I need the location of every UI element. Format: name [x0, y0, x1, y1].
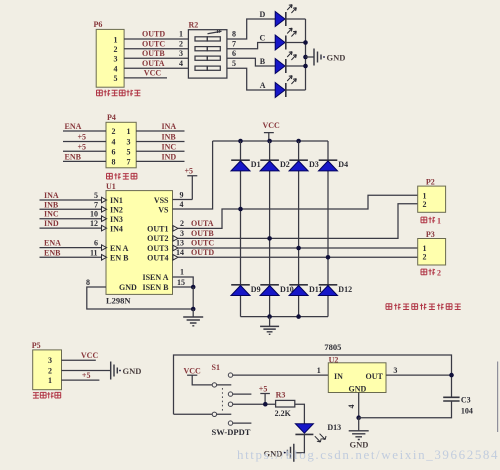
wire OUT1/OUTA to P2.1	[178, 195, 418, 228]
svg-text:D: D	[260, 10, 266, 19]
svg-text:4: 4	[179, 59, 183, 68]
svg-text:7: 7	[94, 200, 98, 209]
wire LED C cathode	[286, 42, 306, 44]
wire R2.8 to LED D	[227, 19, 275, 39]
caption motor 1 (Chinese)	[421, 217, 441, 226]
svg-text:5: 5	[114, 74, 118, 83]
wire R2.6 to LED B	[227, 58, 275, 66]
wire P4.6 +5	[63, 150, 106, 152]
regulator U2 7805 body	[328, 363, 386, 393]
wire bottom rail	[241, 316, 329, 318]
svg-text:3: 3	[127, 138, 131, 147]
junction dot OUTC col3	[296, 246, 301, 251]
svg-text:S1: S1	[212, 363, 220, 372]
svg-text:ENA: ENA	[44, 239, 61, 248]
svg-text:OUT: OUT	[366, 372, 384, 381]
U2 pin names	[334, 372, 384, 393]
switch S1 linkage dashed	[221, 388, 223, 412]
svg-text:D1: D1	[251, 160, 261, 169]
caption motor 2 (Chinese)	[421, 269, 441, 278]
wire P5.1 +5	[62, 379, 100, 381]
junction dot rail col2	[267, 139, 272, 144]
svg-text:1: 1	[127, 127, 131, 136]
junction dot +5	[263, 402, 268, 407]
wire P6.2 to R2.2	[124, 48, 188, 50]
svg-text:6: 6	[232, 49, 236, 58]
power symbol VCC at switch	[184, 366, 202, 375]
junction dot OUTA col1	[238, 207, 243, 212]
svg-text:OUT3: OUT3	[147, 244, 168, 253]
wire LED common vertical	[305, 19, 307, 90]
wire IN3	[40, 218, 102, 220]
wire P4.3 INB	[136, 141, 184, 143]
wire top rail of 7805 loop	[174, 355, 452, 414]
svg-text:EN B: EN B	[110, 254, 129, 263]
wire ISEN A pin1	[173, 277, 194, 287]
wire to LED ground	[306, 56, 314, 58]
svg-text:3: 3	[393, 366, 397, 375]
LED D	[275, 5, 296, 27]
LED A	[275, 76, 296, 98]
svg-text:C: C	[260, 34, 266, 43]
U1 pin names left	[110, 196, 137, 292]
svg-text:OUT1: OUT1	[147, 224, 168, 233]
svg-text:GND: GND	[123, 366, 142, 376]
svg-text:INB: INB	[44, 200, 59, 209]
svg-text:OUTA: OUTA	[191, 219, 214, 228]
junction dot rail col3	[296, 139, 301, 144]
svg-text:ENB: ENB	[65, 152, 82, 161]
svg-text:2: 2	[423, 200, 427, 209]
wire LED B cathode	[286, 65, 306, 67]
svg-text:+5: +5	[78, 142, 87, 151]
svg-text:OUTB: OUTB	[191, 229, 214, 238]
svg-text:13: 13	[176, 239, 184, 248]
svg-text:15: 15	[177, 278, 185, 287]
switch S1 throw contacts	[228, 373, 232, 425]
svg-text:3: 3	[48, 356, 52, 365]
wire OUT3/OUTC to P3.1	[178, 247, 418, 249]
wire P4.5 INC	[136, 150, 184, 152]
svg-text:1: 1	[179, 30, 183, 39]
svg-text:IN4: IN4	[110, 224, 123, 233]
svg-text:C3: C3	[461, 395, 471, 404]
svg-text:P5: P5	[32, 341, 41, 350]
svg-text:8: 8	[232, 30, 236, 39]
svg-text:ENA: ENA	[65, 122, 82, 131]
svg-text:+5: +5	[78, 133, 87, 142]
svg-text:SW-DPDT: SW-DPDT	[212, 427, 251, 437]
junction dot OUTD col4	[326, 255, 331, 260]
wire column 3	[298, 141, 300, 317]
svg-text:D3: D3	[309, 160, 319, 169]
junction dot C	[303, 40, 308, 45]
svg-text:5: 5	[94, 191, 98, 200]
svg-text:11: 11	[90, 248, 98, 257]
wire P4.7 IND	[136, 160, 184, 162]
junction dot ISEN	[191, 285, 196, 290]
diode D10	[260, 285, 279, 296]
wire throw2 stub	[233, 393, 252, 395]
svg-text:3: 3	[114, 55, 118, 64]
svg-text:4: 4	[347, 405, 356, 409]
wire P4.8 ENB	[63, 160, 106, 162]
wire IN2	[40, 208, 102, 210]
junction dot U2 gnd node	[356, 415, 361, 420]
svg-text:10: 10	[90, 210, 98, 219]
junction dot B	[303, 64, 308, 69]
svg-text:U1: U1	[106, 182, 116, 191]
power symbol +5 at R3	[259, 384, 270, 404]
connector P3 body	[418, 239, 446, 266]
ground symbol U1	[183, 309, 203, 326]
U1 input pin arrows	[102, 197, 107, 260]
wire column 4	[327, 141, 329, 317]
caption motor direction indicator (Chinese)	[386, 304, 461, 310]
svg-text:OUTD: OUTD	[191, 248, 214, 257]
caption system power (Chinese)	[33, 392, 61, 398]
svg-text:7805: 7805	[324, 342, 341, 352]
svg-text:1: 1	[180, 268, 184, 277]
junction dot bottom col2	[267, 314, 272, 319]
svg-text:3: 3	[180, 229, 184, 238]
wire IN1	[40, 199, 102, 201]
svg-text:VCC: VCC	[263, 121, 281, 130]
svg-text:INA: INA	[44, 191, 59, 200]
svg-text:4: 4	[180, 200, 184, 209]
wire R2.7 to LED C	[227, 43, 275, 49]
wire P6.3 to R2.3	[124, 57, 188, 59]
P6 pin numbers	[114, 35, 118, 83]
wire R3 to D13	[295, 404, 305, 424]
svg-text:ISEN A: ISEN A	[142, 273, 168, 282]
wire R2.5 to LED A	[227, 68, 275, 90]
wire P4.1 INA	[136, 130, 184, 132]
svg-text:IN3: IN3	[110, 215, 123, 224]
svg-text:1: 1	[317, 366, 321, 375]
svg-text:VS: VS	[158, 206, 169, 215]
svg-text:IND: IND	[162, 152, 177, 161]
svg-text:INC: INC	[44, 210, 59, 219]
image edge artifact line	[497, 362, 499, 433]
switch S1 pole contacts	[212, 383, 216, 387]
svg-text:OUTC: OUTC	[191, 239, 214, 248]
LED C	[275, 28, 296, 50]
P5 pin numbers	[48, 356, 52, 385]
wire LED A cathode	[286, 89, 306, 91]
svg-text:2: 2	[112, 127, 116, 136]
svg-text:2.2K: 2.2K	[275, 409, 292, 418]
svg-text:OUT2: OUT2	[147, 234, 168, 243]
svg-text:IN1: IN1	[110, 196, 123, 205]
diode D4	[319, 160, 338, 171]
svg-text:D4: D4	[338, 160, 348, 169]
wire U2 OUT pin3	[386, 374, 452, 376]
svg-text:OUT4: OUT4	[147, 254, 168, 263]
svg-text:EN A: EN A	[110, 244, 129, 253]
wire P5.2 to ground	[62, 370, 111, 372]
P2 pin numbers	[423, 191, 427, 209]
svg-text:https://blog.csdn.net/weixin_3: https://blog.csdn.net/weixin_39662584	[237, 447, 499, 462]
wire LED D cathode	[286, 18, 306, 20]
svg-text:VSS: VSS	[154, 196, 169, 205]
diode D3	[289, 160, 308, 171]
junction dot OUTB col2	[267, 236, 272, 241]
svg-text:6: 6	[112, 147, 116, 156]
ground symbol D13	[284, 444, 294, 462]
svg-text:B: B	[260, 57, 266, 66]
svg-text:VCC: VCC	[144, 69, 162, 78]
svg-text:104: 104	[461, 406, 473, 415]
svg-text:IN: IN	[334, 372, 343, 381]
wire VS pin4 to VCC rail	[173, 141, 213, 209]
connector P2 body	[418, 186, 446, 212]
svg-text:L298N: L298N	[106, 296, 131, 306]
svg-text:8: 8	[86, 278, 90, 287]
svg-text:2: 2	[423, 253, 427, 262]
svg-text:14: 14	[176, 248, 184, 257]
resistor pack R2 body	[188, 30, 227, 79]
junction dot bottom col3	[296, 314, 301, 319]
svg-text:OUTD: OUTD	[142, 30, 165, 39]
svg-text:2: 2	[179, 39, 183, 48]
svg-text:1: 1	[114, 35, 118, 44]
wire throw1 to U2 IN	[233, 374, 329, 376]
svg-text:P3: P3	[426, 230, 435, 239]
svg-text:1: 1	[48, 376, 52, 385]
wire P6.1 to R2.1	[124, 38, 188, 40]
junction dot rail col1	[238, 139, 243, 144]
svg-text:+5: +5	[259, 384, 268, 393]
IC U1 L298N body	[106, 191, 173, 295]
svg-text:R3: R3	[276, 390, 286, 399]
diode D12	[319, 285, 338, 296]
svg-text:6: 6	[94, 239, 98, 248]
svg-text:5: 5	[232, 59, 236, 68]
U1 output pin arrows	[173, 226, 178, 261]
wire D13 cathode to ground	[295, 434, 304, 452]
junction dot gnd tap	[303, 55, 308, 60]
wire P6.5 VCC stub	[124, 77, 167, 79]
diode D2	[260, 160, 279, 171]
svg-text:+5: +5	[82, 371, 91, 380]
P4 right pin numbers	[127, 127, 131, 166]
wire P5.3 VCC	[62, 359, 96, 361]
wire P4.2 ENA	[63, 130, 106, 132]
svg-text:1: 1	[437, 217, 441, 226]
LED B	[275, 52, 296, 74]
svg-text:OUTC: OUTC	[142, 39, 165, 48]
P4 left pin numbers	[112, 127, 116, 166]
wire VCC rail	[213, 140, 328, 142]
svg-text:INA: INA	[162, 122, 177, 131]
svg-text:2: 2	[180, 219, 184, 228]
svg-text:VCC: VCC	[184, 366, 202, 375]
svg-text:3: 3	[179, 49, 183, 58]
U1 pin names right	[142, 196, 169, 292]
wire P6.4 to R2.4	[124, 67, 188, 69]
P3 pin numbers	[423, 244, 427, 262]
svg-text:P4: P4	[107, 113, 116, 122]
ground symbol LED common	[314, 49, 325, 66]
resistor R3 body	[276, 400, 295, 407]
capacitor C3	[359, 397, 460, 417]
wire EN B	[40, 256, 102, 258]
svg-text:IN2: IN2	[110, 206, 123, 215]
svg-text:ENB: ENB	[44, 248, 61, 257]
diode D1	[231, 160, 250, 171]
svg-text:7: 7	[232, 39, 236, 48]
wire throw3 to R3	[233, 403, 276, 405]
ground symbol P5	[111, 362, 121, 380]
wire VSS pin9 to +5	[173, 199, 193, 201]
wire IN4	[40, 227, 102, 229]
svg-text:D9: D9	[251, 285, 261, 294]
diode D11	[289, 285, 308, 296]
ground symbol U2	[349, 418, 369, 440]
wire EN A	[40, 247, 102, 249]
connector P5 body	[33, 350, 62, 390]
svg-text:5: 5	[127, 147, 131, 156]
svg-text:VCC: VCC	[81, 351, 99, 360]
ground symbol diode matrix	[260, 317, 279, 335]
svg-text:P2: P2	[426, 177, 435, 186]
LED D13	[295, 424, 326, 442]
connector P6 body	[96, 29, 124, 87]
svg-text:INB: INB	[162, 133, 177, 142]
svg-text:+5: +5	[185, 167, 194, 176]
wire loop bottom to pole2	[174, 413, 213, 415]
wire throw4 stub	[233, 422, 252, 424]
diode D9	[231, 285, 250, 296]
svg-text:4: 4	[114, 65, 118, 74]
wire ISEN B pin15	[173, 286, 194, 288]
wire P4.4 +5	[63, 141, 106, 143]
svg-text:9: 9	[180, 191, 184, 200]
svg-text:2: 2	[114, 45, 118, 54]
svg-text:P6: P6	[94, 20, 103, 29]
caption motor control signal (Chinese)	[97, 90, 141, 96]
svg-text:IND: IND	[44, 219, 59, 228]
svg-text:D2: D2	[280, 160, 290, 169]
svg-text:R2: R2	[189, 21, 199, 30]
svg-text:7: 7	[127, 157, 131, 166]
svg-text:D12: D12	[338, 285, 352, 294]
svg-text:D13: D13	[327, 423, 341, 432]
wire column 1	[240, 141, 242, 317]
power symbol VCC of diode rail	[263, 121, 281, 141]
wire U1 GND pin8	[87, 287, 193, 309]
junction dot ground run	[191, 307, 196, 312]
svg-text:8: 8	[112, 157, 116, 166]
svg-text:GND: GND	[349, 384, 367, 393]
wire column 2	[269, 141, 271, 317]
svg-text:4: 4	[112, 138, 116, 147]
svg-text:D11: D11	[309, 285, 322, 294]
svg-text:OUTB: OUTB	[142, 49, 165, 58]
caption motor control (Chinese)	[107, 173, 137, 179]
svg-text:2: 2	[437, 269, 441, 278]
wire OUT4/OUTD to P3.2	[178, 256, 418, 258]
power symbol +5 for VSS	[185, 167, 198, 200]
wire OUT2/OUTB to P2.2	[178, 204, 418, 239]
connector P4 body	[106, 122, 136, 168]
svg-text:A: A	[260, 81, 266, 90]
svg-text:INC: INC	[162, 142, 177, 151]
svg-text:OUTA: OUTA	[142, 59, 165, 68]
svg-text:GND: GND	[119, 283, 137, 292]
switch S1 lever lines	[217, 385, 232, 414]
svg-text:ISEN B: ISEN B	[142, 283, 169, 292]
wire ISEN to ground run	[192, 287, 194, 309]
svg-text:2: 2	[48, 366, 52, 375]
wire U2 GND pin4	[358, 393, 360, 418]
svg-text:12: 12	[90, 219, 98, 228]
svg-text:GND: GND	[327, 52, 346, 62]
junction dot OUT node	[449, 373, 454, 378]
